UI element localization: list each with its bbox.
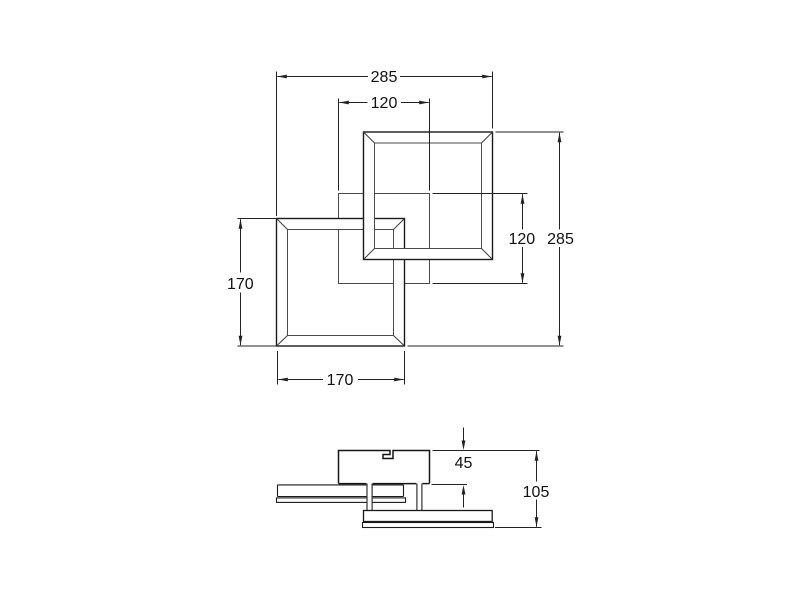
canopy bottom edge (gapped at posts) (339, 483, 430, 485)
large frame chamfer diagonals (364, 132, 493, 260)
svg-text:170: 170 (327, 372, 354, 389)
dimension 285 right (408, 132, 564, 346)
left bar body (small frame side profile) (278, 485, 404, 497)
canopy square 120x120 (single line, under frames) (339, 194, 430, 284)
dimension 170 bottom (278, 351, 405, 385)
dimension 105 (side view) (495, 451, 542, 527)
svg-text:285: 285 (547, 231, 574, 248)
svg-text:105: 105 (523, 484, 550, 501)
large frame inner edge (375, 143, 482, 249)
left connector post (in front of left bar) (367, 483, 372, 510)
svg-text:45: 45 (455, 455, 473, 472)
small square frame 170x170 (bottom-left): white ring mask (277, 219, 405, 347)
canopy box side view with mounting notch (no bottom edge here) (339, 451, 430, 484)
small frame inner edge (288, 230, 394, 336)
dimension 45 (side view) (432, 428, 540, 508)
dimension 120 top (339, 99, 430, 191)
dimension 170 left (238, 219, 277, 347)
large square frame 170x170 (top-right): white ring mask (364, 132, 493, 260)
svg-text:120: 120 (371, 95, 398, 112)
lower bar flange (363, 523, 494, 528)
lower bar body (large frame side profile) (364, 511, 493, 522)
svg-text:285: 285 (371, 69, 398, 86)
svg-text:120: 120 (508, 231, 535, 248)
dimension 120 right (433, 194, 528, 284)
left bar flange (277, 498, 406, 503)
small frame outer edge (277, 219, 405, 347)
small frame chamfer diagonals (277, 219, 405, 347)
dimension 285 top (277, 72, 493, 217)
right connector post (416, 484, 418, 511)
svg-text:170: 170 (227, 276, 254, 293)
large frame outer edge (364, 132, 493, 260)
